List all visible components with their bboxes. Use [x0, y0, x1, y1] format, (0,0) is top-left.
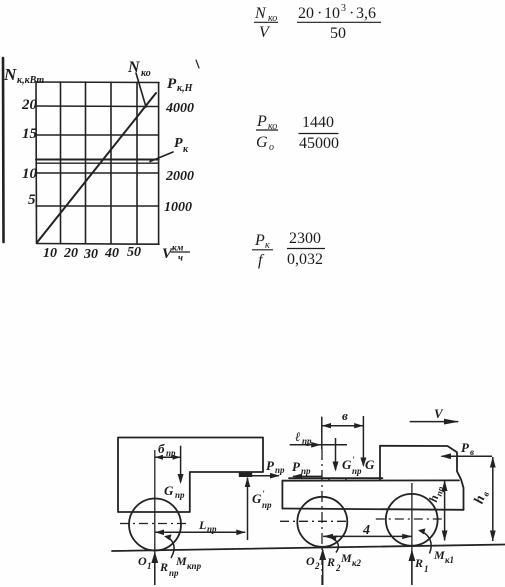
svg-text:пр: пр	[352, 466, 362, 476]
svg-text:G: G	[256, 134, 268, 151]
svg-text:15: 15	[22, 126, 38, 142]
svg-text:P: P	[266, 458, 275, 473]
svg-text:3: 3	[341, 3, 346, 14]
svg-text:': '	[262, 489, 265, 499]
svg-text:пр: пр	[301, 466, 311, 476]
svg-text:к,кВт: к,кВт	[17, 75, 44, 86]
svg-text:ч: ч	[178, 254, 183, 264]
svg-text:V: V	[259, 24, 271, 41]
svg-text:30: 30	[83, 247, 98, 262]
svg-text:P: P	[292, 459, 301, 474]
svg-text:пр: пр	[169, 568, 179, 578]
svg-text:1: 1	[147, 561, 152, 571]
svg-text:M: M	[175, 554, 187, 568]
svg-text:20: 20	[21, 97, 38, 113]
svg-text:N: N	[254, 5, 267, 22]
svg-text:M: M	[433, 548, 445, 562]
svg-text:пр: пр	[166, 448, 176, 458]
svg-text:10: 10	[324, 5, 340, 22]
svg-text:R: R	[326, 555, 335, 569]
svg-text:пр: пр	[275, 465, 285, 475]
svg-text:к2: к2	[352, 558, 362, 568]
svg-text:2000: 2000	[165, 169, 194, 184]
svg-text:10: 10	[43, 246, 57, 261]
svg-text:G: G	[365, 457, 375, 472]
svg-text:': '	[352, 455, 355, 465]
svg-text:·: ·	[349, 5, 354, 22]
svg-text:R: R	[414, 556, 423, 570]
svg-text:пр: пр	[302, 436, 312, 446]
svg-text:M: M	[340, 551, 352, 565]
svg-text:10: 10	[22, 166, 38, 182]
svg-text:20: 20	[63, 246, 78, 261]
svg-text:0,032: 0,032	[287, 251, 323, 268]
svg-text:P: P	[461, 440, 470, 455]
svg-text:P: P	[174, 136, 183, 151]
svg-text:пр: пр	[207, 524, 217, 534]
svg-text:P: P	[256, 113, 267, 130]
svg-text:·: ·	[317, 5, 322, 22]
svg-text:ℓ: ℓ	[295, 429, 301, 444]
svg-text:3,6: 3,6	[356, 5, 376, 22]
svg-text:пр: пр	[175, 490, 185, 500]
svg-text:f: f	[258, 252, 265, 269]
svg-text:O: O	[306, 554, 315, 568]
svg-text:N: N	[127, 59, 141, 76]
svg-text:1000: 1000	[164, 200, 192, 215]
svg-text:5: 5	[28, 192, 36, 208]
svg-text:ко: ко	[141, 68, 151, 79]
svg-text:N: N	[3, 65, 17, 84]
svg-text:G: G	[252, 491, 262, 506]
svg-text:G: G	[164, 483, 174, 498]
svg-text:4: 4	[362, 523, 370, 538]
svg-text:1: 1	[424, 564, 429, 574]
svg-text:1440: 1440	[302, 114, 334, 131]
svg-text:к: к	[183, 144, 189, 155]
svg-text:R: R	[159, 560, 168, 574]
svg-text:40: 40	[104, 246, 119, 261]
svg-text:O: O	[138, 554, 147, 568]
svg-text:P: P	[167, 76, 177, 92]
svg-text:б: б	[158, 441, 165, 456]
svg-text:пр: пр	[262, 500, 272, 510]
svg-text:2300: 2300	[289, 230, 321, 247]
svg-text:к1: к1	[445, 555, 454, 565]
svg-text:кпр: кпр	[187, 561, 202, 571]
svg-text:2: 2	[314, 561, 320, 571]
svg-text:V: V	[434, 406, 444, 421]
svg-text:в: в	[342, 408, 348, 423]
svg-text:50: 50	[127, 245, 141, 260]
svg-text:в: в	[470, 447, 474, 457]
svg-text:к,Н: к,Н	[177, 83, 194, 94]
svg-text:50: 50	[330, 25, 346, 42]
svg-text:L: L	[198, 518, 206, 532]
svg-text:45000: 45000	[299, 135, 339, 152]
svg-text:P: P	[254, 232, 265, 249]
svg-text:20: 20	[298, 5, 314, 22]
svg-text:G: G	[342, 457, 352, 472]
svg-text:4000: 4000	[165, 101, 194, 116]
svg-text:о: о	[269, 142, 274, 153]
